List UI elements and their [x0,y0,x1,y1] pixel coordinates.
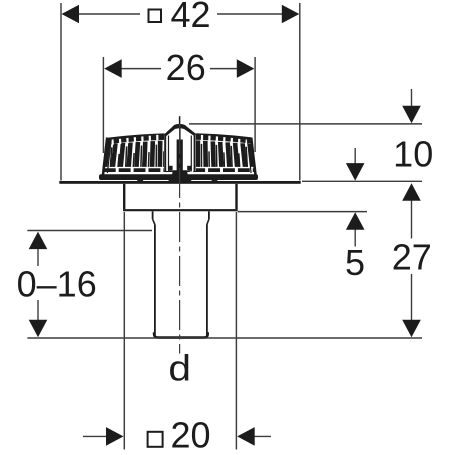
dome centre cap: white body [164,126,196,171]
leaf guard dome: left sloped edge [103,138,107,175]
dim 20 right arrow (outside) [254,435,271,437]
dome centre cap: neck [172,170,188,176]
dome centre cap: walls [164,134,166,172]
leaf guard dome: right foot [212,179,218,183]
dim 0-16 upper arrow [29,232,48,250]
svg-text:0–16: 0–16 [17,264,97,305]
leaf guard dome: right sloped edge [251,138,255,175]
pipe collar [152,211,154,219]
centreline (dash-dot) [179,124,181,354]
dim 26 extension line left [102,57,104,153]
svg-text:5: 5 [345,242,365,283]
svg-text:10: 10 [393,134,433,175]
socket bottom [123,209,238,211]
ref line adjustment top (y=230.5) [27,230,152,232]
dim 20 left arrow (outside) [83,435,107,437]
dome centre cap: tent roof band [163,124,196,136]
dome finial stub [179,116,181,124]
svg-text:d: d [168,349,191,389]
leaf guard dome: top rim band [107,133,252,144]
leaf guard dome: bottom ring [99,174,258,180]
flange plate (square 42) [59,181,300,184]
pipe collar bevel [153,219,155,224]
pipe bottom edge [154,332,208,337]
dim 10 upper arrow [411,89,413,107]
dome centre cap: inner blocks [168,166,172,171]
dim 27 dimension line + arrows [411,199,413,239]
ref line pipe bottom (y=338) [27,337,422,339]
dim 26 dimension line left segment + arrow [122,68,162,70]
dim 26 extension line right [254,57,256,152]
socket body walls [123,184,125,209]
svg-text:27: 27 [392,236,432,277]
svg-text:26: 26 [166,47,206,88]
dim 0-16 lower arrow [37,300,39,320]
dim 5 lower arrow [354,229,356,247]
dim 26 dimension line right segment + arrow [210,68,237,70]
dim 5 upper arrow [354,148,356,164]
ref line dome top (y=124) [189,123,422,125]
dim 42 extension line left [60,3,62,181]
ref line socket bottom extension (5) [238,211,367,213]
dim 20 square symbol [148,432,163,447]
svg-text:20: 20 [170,414,210,450]
dim 42 extension line right [299,3,301,181]
dim 20 extension line right [235,212,237,450]
pipe walls [154,225,156,336]
dome centre cap: base bar [168,176,191,181]
leaf guard dome: rim band slits [111,139,114,144]
dim 42 dimension line left segment + arrow [79,13,140,15]
leaf guard dome: inner lower ring (dashed, seen through slots) [104,168,255,172]
leaf guard dome: vertical slats [103,144,111,167]
dim 20 extension line left [123,212,125,450]
dim 42 square symbol [149,10,162,23]
leaf guard dome: left foot [137,179,143,183]
dome centre cap: inner rod cluster [177,140,183,177]
dim 42 dimension line right segment + arrow [217,13,282,15]
svg-text:42: 42 [170,0,210,35]
ref line flange top extension [302,180,422,182]
